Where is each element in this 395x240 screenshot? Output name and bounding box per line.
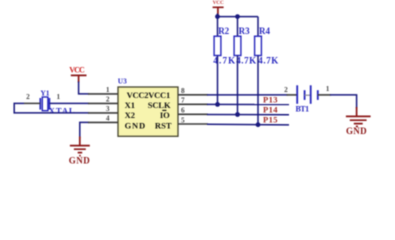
crystal Y1 [40,88,75,115]
svg-text:1: 1 [106,85,110,94]
wire R3 top [237,17,239,37]
svg-text:X2: X2 [125,110,135,120]
svg-text:7: 7 [181,96,185,105]
wire U3 GND to ground [80,122,89,138]
svg-text:SCLK: SCLK [148,100,171,110]
svg-text:GND: GND [69,155,91,165]
wire top bus VCC to R4 [217,16,258,18]
junction top bus / R2 [215,14,220,19]
wire battery to ground [330,95,357,109]
wire R4 top [257,17,259,37]
power port VCC (top net, clipped text) [213,0,224,14]
power port VCC (left) [69,66,86,83]
pin 3 of U3 (left stub) [88,112,118,114]
wire crystal pin1 to U3 X1 [49,102,89,104]
wire row8 to battery [207,94,288,96]
svg-text:3: 3 [106,104,110,113]
svg-text:8: 8 [181,86,185,95]
pin 2 of U3 (left stub) [88,102,118,104]
IC U3 body [118,76,178,136]
wire R2 bottom to row7 [217,56,219,105]
junction top bus / R3 [235,14,240,19]
svg-text:GND: GND [346,126,367,136]
svg-text:VCC: VCC [69,66,85,75]
wire row6 net P14 [207,114,289,116]
svg-text:VCC2VCC1: VCC2VCC1 [127,90,171,100]
resistor R3 [234,26,256,66]
svg-text:Y1: Y1 [40,88,49,97]
pin 1 of U3 (left stub) [88,93,118,95]
svg-text:R2: R2 [218,26,229,36]
wire row5 net P15 [207,123,289,126]
svg-text:5: 5 [181,115,185,124]
svg-text:P15: P15 [263,115,278,125]
wire crystal pin2 left [24,102,40,104]
svg-text:X1: X1 [125,100,135,110]
resistor R2 [213,26,235,66]
svg-text:P13: P13 [263,94,278,104]
svg-text:2: 2 [106,95,110,104]
svg-text:RST: RST [155,121,172,131]
svg-text:BT1: BT1 [296,105,310,114]
battery BT1 [284,84,331,114]
wire loop left and down [14,103,89,113]
svg-text:P14: P14 [263,105,278,115]
wire VCC stub to top bus [216,14,218,17]
svg-text:XTAL: XTAL [49,105,75,115]
wire R3 bottom to row6 [237,56,239,115]
svg-text:2: 2 [284,85,288,94]
pin 4 of U3 (left stub) [88,121,118,123]
svg-text:R4: R4 [259,26,271,36]
ground GND (right) [346,107,371,136]
svg-text:1: 1 [326,84,330,93]
junction row6 / R3 [235,112,240,117]
svg-text:1: 1 [56,92,60,101]
battery cell plates [296,85,298,104]
pin 8 of U3 (right stub) [178,94,208,96]
svg-text:2: 2 [26,92,30,101]
svg-text:6: 6 [181,106,185,115]
svg-text:GND: GND [125,121,146,131]
pin 5 of U3 (right stub) [178,123,208,125]
svg-text:U3: U3 [118,76,127,85]
wire VCC down to pin1 row [79,82,89,94]
pin 6 of U3 (right stub) [178,113,208,115]
resistor R4 [255,26,279,66]
wire row7 net P13 [207,103,289,105]
svg-text:4: 4 [106,114,110,123]
pin 7 of U3 (right stub) [178,103,208,105]
junction row7 / R2 [215,102,220,107]
svg-text:VCC: VCC [213,0,224,6]
svg-text:IO: IO [160,110,170,120]
junction row5 / R4 [256,122,261,127]
svg-text:R3: R3 [239,26,250,36]
svg-text:4.7K: 4.7K [213,56,235,66]
wire R4 bottom to row5 [257,56,259,125]
ground GND (left) [69,137,91,166]
svg-text:4.7K: 4.7K [258,56,278,66]
svg-text:4.7K: 4.7K [236,56,256,66]
wire R2 top [217,17,219,37]
